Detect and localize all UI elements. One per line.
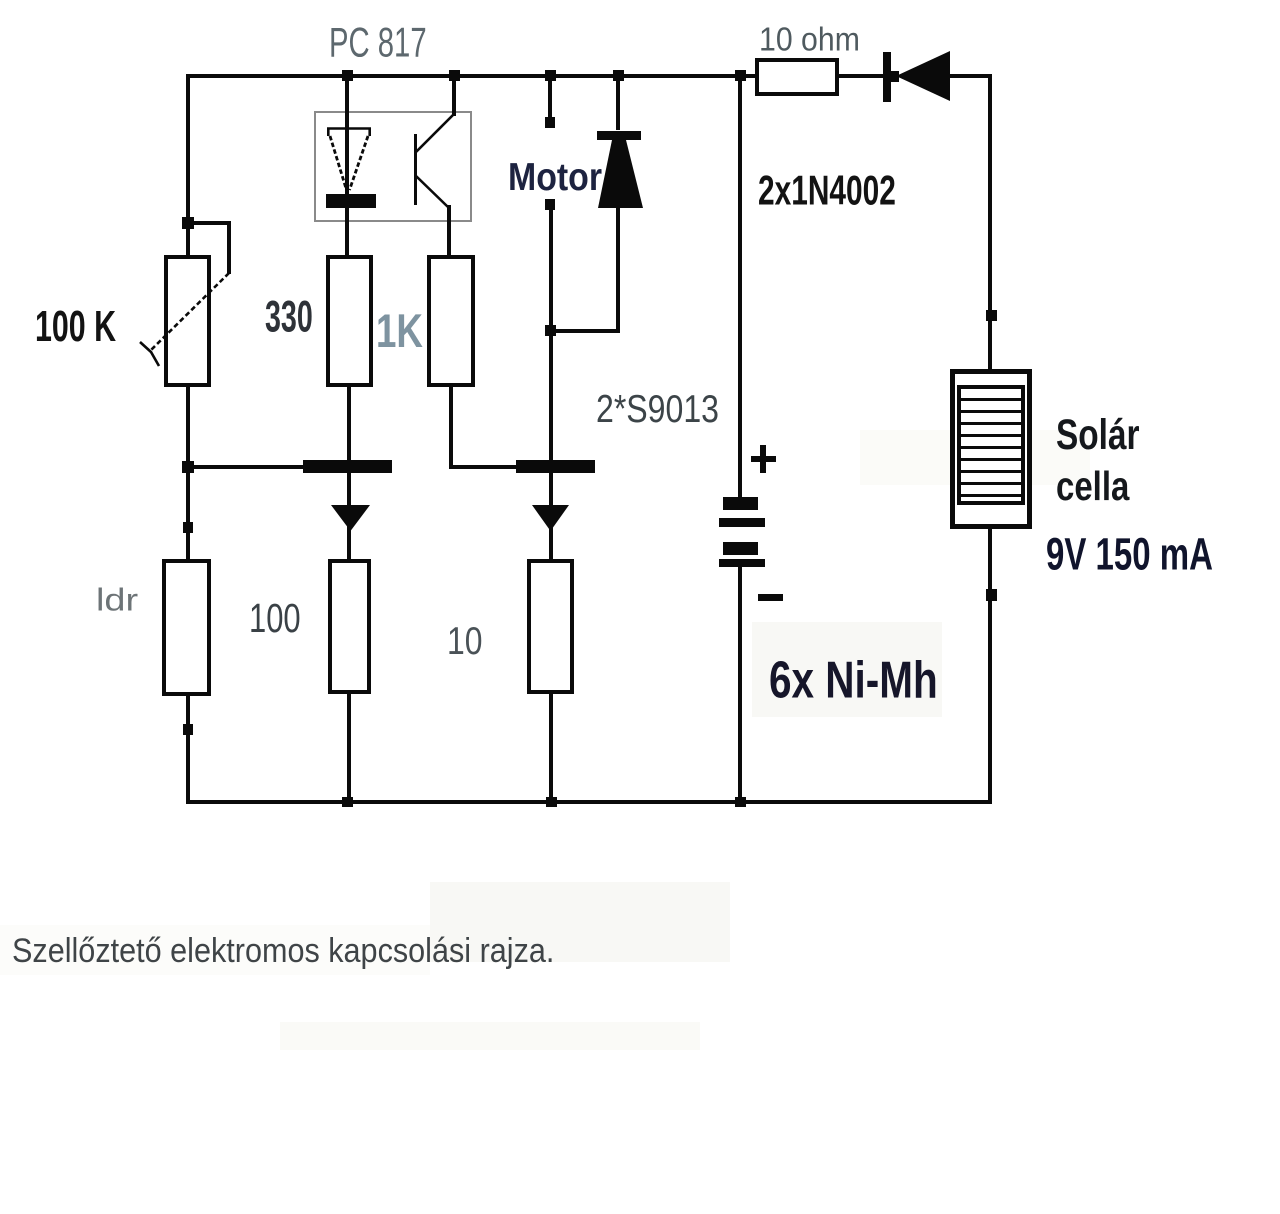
- LED inside optocoupler: [326, 128, 376, 208]
- optocoupler U1 PC817 box: [314, 111, 472, 222]
- transistor Q1 base bar: [303, 460, 392, 473]
- resistor R2 330 body: [326, 255, 373, 387]
- label Solar cella line1: [1056, 413, 1140, 455]
- solar cell PV1 outer body: [950, 369, 1032, 529]
- wire thermistor tap horizontal: [188, 221, 231, 225]
- background tint patch right of S9013: [860, 430, 1090, 485]
- wire phototransistor collector vertical: [452, 78, 456, 116]
- transistor Q2 base bar: [516, 460, 595, 473]
- wire right vertical upper: [988, 74, 992, 370]
- node junction left wire base Q1: [182, 461, 194, 473]
- node junction bottom rail at 10: [546, 797, 557, 807]
- label 10 ohm: [759, 24, 860, 57]
- label 9V 150 mA: [1046, 531, 1213, 576]
- label Motor: [508, 157, 602, 196]
- label 100: [249, 600, 301, 641]
- node square solar branch upper: [986, 310, 997, 321]
- node junction top rail at flyback diode branch: [613, 70, 624, 81]
- node junction left wire thermistor tap: [182, 217, 194, 229]
- wire motor branch upper stub: [548, 78, 552, 118]
- wire Q1 collector vertical: [347, 387, 351, 460]
- background tint patch left margin caption: [0, 925, 430, 975]
- wire flyback diode link horizontal: [551, 329, 620, 333]
- background tint patch below caption: [280, 1022, 700, 1050]
- wire below 100: [347, 693, 351, 802]
- node junction bottom rail at 100: [342, 797, 353, 807]
- wire left vertical: [186, 74, 190, 804]
- wire bottom rail: [186, 800, 992, 804]
- motor terminal lower: [545, 199, 555, 210]
- diode D1 flyback cathode bar: [597, 131, 641, 140]
- wire 1K to base Q2 vertical: [449, 387, 453, 469]
- wire flyback diode branch lower vertical: [616, 205, 620, 333]
- diode D2 series triangle: [896, 51, 950, 101]
- label 1K: [376, 308, 423, 355]
- label 6x Ni-Mh: [769, 655, 938, 707]
- resistor R3 1K body: [427, 255, 475, 387]
- battery BT1 plus sign vertical: [760, 445, 766, 473]
- wire battery vertical upper: [738, 74, 742, 498]
- background tint patch near caption: [430, 882, 730, 962]
- caption text: [12, 934, 554, 969]
- resistor R4 ldr body: [162, 559, 211, 696]
- wire motor branch lower vertical: [549, 210, 553, 460]
- diode D2 series cathode bar: [883, 52, 891, 102]
- wire top rail right segment: [947, 74, 992, 78]
- wire right vertical lower: [988, 525, 992, 804]
- battery BT1 plate 4 long: [719, 559, 765, 567]
- wire thermistor tap vertical: [227, 221, 231, 274]
- node junction top rail at motor branch: [545, 70, 556, 81]
- thermistor diagonal arrow: [140, 273, 229, 366]
- node square solar branch lower: [986, 589, 997, 601]
- thermistor R1 100K body: [164, 255, 211, 387]
- wire LED branch vertical: [345, 78, 349, 255]
- diode D1 flyback triangle: [598, 140, 643, 208]
- battery BT1 plus sign horizontal: [751, 456, 776, 462]
- node junction top rail at battery branch: [735, 70, 746, 81]
- background tint patch behind 6x Ni-Mh: [752, 622, 942, 717]
- wire Q2 emitter vertical: [549, 473, 553, 559]
- node square left wire lower: [183, 724, 193, 735]
- battery BT1 plate 3 short: [723, 542, 758, 555]
- battery BT1 plate 2 long: [719, 518, 765, 527]
- label 100 K: [35, 306, 116, 350]
- transistor Q1 emitter arrow: [331, 505, 370, 531]
- wire top rail left segment: [186, 74, 757, 78]
- label ldr: [96, 584, 138, 615]
- motor terminal upper: [545, 117, 555, 128]
- resistor R5 100 body: [328, 559, 371, 694]
- node junction bottom rail at battery: [735, 797, 746, 807]
- phototransistor inside optocoupler: [416, 114, 455, 208]
- node square left wire upper: [183, 522, 193, 533]
- node junction motor wire flyback link: [545, 325, 556, 336]
- node junction top rail at LED branch: [342, 70, 353, 81]
- wire base Q1 horizontal: [188, 465, 303, 469]
- label PC 817: [329, 22, 427, 64]
- wire flyback diode branch upper stub: [616, 78, 620, 130]
- label 330: [265, 295, 313, 339]
- solar cell PV1 inner grid: [957, 385, 1025, 505]
- label Solar cella line2: [1056, 466, 1129, 506]
- battery BT1 plate 1 short: [723, 497, 758, 510]
- battery BT1 minus sign: [758, 594, 783, 601]
- resistor R6 10 body: [527, 559, 574, 694]
- wire phototransistor emitter vertical: [447, 205, 451, 255]
- wire top rail between resistor and diode: [836, 74, 896, 78]
- wire 1K to base Q2 horizontal: [449, 465, 516, 469]
- node junction top rail at phototransistor branch: [449, 70, 460, 81]
- label 10: [447, 623, 482, 662]
- label 2*S9013: [596, 389, 719, 428]
- wire Q1 emitter vertical: [347, 473, 351, 559]
- transistor Q2 emitter arrow: [532, 505, 569, 531]
- wire below 10: [549, 693, 553, 802]
- label 2x1N4002: [758, 171, 896, 213]
- wire battery vertical lower: [738, 566, 742, 804]
- resistor R7 10 ohm body: [755, 58, 839, 96]
